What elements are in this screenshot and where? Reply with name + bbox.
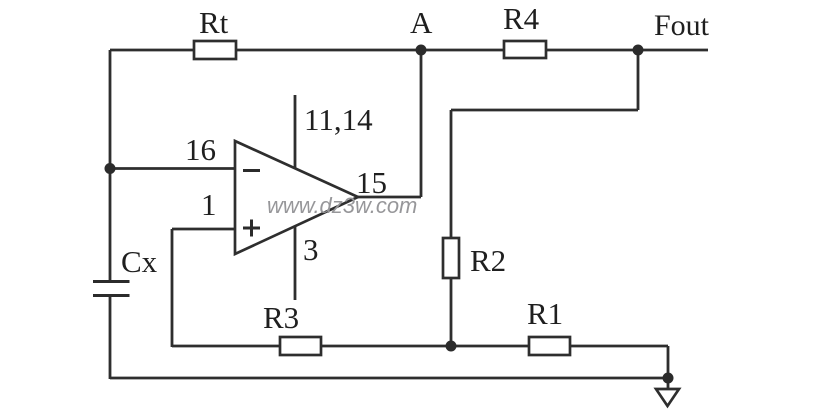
capacitor Cx plates <box>93 280 130 283</box>
svg-text:1: 1 <box>201 187 217 222</box>
wire op-amp pins 11,14 vertical <box>294 95 297 168</box>
svg-text:R2: R2 <box>470 243 506 278</box>
wire op-amp output pin 15 <box>358 196 421 199</box>
svg-text:16: 16 <box>185 132 216 167</box>
svg-text:R1: R1 <box>527 296 563 331</box>
wire node A vertical drop <box>420 50 423 197</box>
wire left rail upper (top to Cx) <box>109 50 112 281</box>
wire R2 branch lower vertical <box>450 278 453 346</box>
resistor R4 <box>504 41 546 58</box>
svg-text:Fout: Fout <box>654 9 710 42</box>
resistor Rt <box>194 41 236 59</box>
wire R1 to right corner <box>570 345 668 348</box>
wire right corner vertical <box>667 346 670 378</box>
node ground junction dot <box>663 373 674 384</box>
wire op-amp pin 3 vertical <box>294 226 297 300</box>
wire Fout stub right <box>638 49 708 52</box>
svg-text:Rt: Rt <box>199 5 229 40</box>
resistor R3 <box>280 337 321 355</box>
wire R3 to R2 junction <box>321 345 451 348</box>
wire inverting input (node to op-amp) <box>110 167 235 170</box>
svg-text:A: A <box>410 5 433 40</box>
svg-text:3: 3 <box>303 232 319 267</box>
wire R2 branch upper vertical <box>450 110 453 238</box>
wire bottom rail <box>110 377 668 380</box>
op-amp plus input mark <box>243 227 260 230</box>
wire non-inverting input horizontal <box>172 228 235 231</box>
svg-text:Cx: Cx <box>121 244 158 279</box>
node A junction dot <box>416 45 427 56</box>
wire Fout vertical drop <box>637 50 640 110</box>
resistor R1 <box>529 337 570 355</box>
ground symbol triangle <box>656 389 679 406</box>
node R2/R3/R1 junction dot <box>446 341 457 352</box>
wire R4 to Fout node <box>546 49 638 52</box>
node inverting input junction dot <box>105 163 116 174</box>
wire ground stub <box>667 378 670 389</box>
wire non-inverting input vertical <box>171 229 174 347</box>
wire node A to R4 <box>421 49 505 52</box>
wire Rt to node A <box>236 49 421 52</box>
op-amp minus input mark <box>243 169 260 172</box>
svg-text:R4: R4 <box>503 1 540 36</box>
wire feedback horizontal to R2 branch <box>451 109 638 112</box>
wire left rail lower (Cx to bottom rail) <box>109 296 112 379</box>
resistor R2 <box>443 238 459 278</box>
wire bottom mid rail: pin1 leg to R3 <box>172 345 280 348</box>
svg-text:11,14: 11,14 <box>304 102 373 137</box>
wire R2 junction to R1 <box>451 345 530 348</box>
node Fout junction dot <box>633 45 644 56</box>
op-amp U1 triangle <box>235 141 358 254</box>
wire top rail: left corner to Rt <box>110 49 195 52</box>
svg-text:www.dz3w.com: www.dz3w.com <box>267 193 417 218</box>
svg-text:R3: R3 <box>263 300 299 335</box>
